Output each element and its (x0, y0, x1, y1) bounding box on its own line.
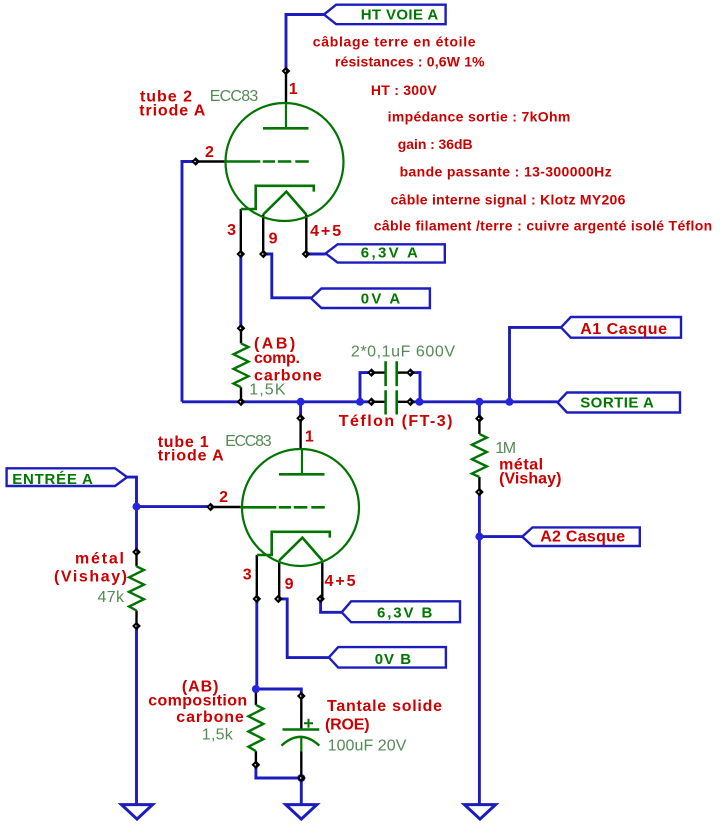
svg-text:1: 1 (289, 81, 298, 98)
svg-text:100uF 20V: 100uF 20V (328, 738, 407, 755)
svg-text:0V A: 0V A (361, 291, 401, 308)
svg-text:6,3V B: 6,3V B (377, 604, 432, 621)
svg-text:ECC83: ECC83 (225, 433, 272, 450)
svg-text:(Vishay): (Vishay) (499, 471, 561, 488)
svg-text:A2 Casque: A2 Casque (540, 529, 625, 546)
svg-text:comp.: comp. (254, 350, 300, 367)
svg-text:4+5: 4+5 (310, 223, 341, 240)
svg-text:(Vishay): (Vishay) (54, 569, 127, 586)
svg-text:résistances : 0,6W 1%: résistances : 0,6W 1% (335, 54, 485, 70)
svg-text:1: 1 (305, 428, 314, 445)
svg-text:HT VOIE A: HT VOIE A (361, 7, 439, 24)
svg-text:1,5K: 1,5K (249, 382, 286, 399)
svg-text:3: 3 (227, 222, 236, 239)
svg-text:impédance sortie : 7kOhm: impédance sortie : 7kOhm (388, 109, 571, 125)
svg-text:triode A: triode A (139, 103, 205, 120)
svg-text:1M: 1M (495, 440, 516, 457)
svg-text:4+5: 4+5 (325, 573, 356, 590)
svg-text:SORTIE A: SORTIE A (580, 395, 654, 412)
svg-text:carbone: carbone (176, 709, 244, 726)
svg-text:0V B: 0V B (375, 651, 412, 668)
svg-text:composition: composition (148, 693, 247, 710)
svg-text:triode A: triode A (158, 447, 224, 464)
svg-text:47k: 47k (98, 589, 126, 606)
svg-text:A1 Casque: A1 Casque (580, 321, 667, 338)
svg-text:2*0,1uF 600V: 2*0,1uF 600V (351, 344, 455, 361)
svg-text:9: 9 (269, 230, 278, 247)
svg-text:ECC83: ECC83 (210, 88, 259, 105)
svg-text:ENTRÉE A: ENTRÉE A (12, 471, 93, 488)
svg-text:9: 9 (285, 576, 294, 593)
svg-text:câble filament /terre : cuivre: câble filament /terre : cuivre argenté i… (374, 218, 712, 234)
svg-text:Tantale solide: Tantale solide (327, 698, 442, 715)
svg-text:1,5k: 1,5k (202, 727, 234, 744)
svg-text:2: 2 (219, 489, 228, 506)
svg-text:HT : 300V: HT : 300V (371, 82, 437, 98)
svg-text:(ROE): (ROE) (325, 717, 370, 734)
svg-text:2: 2 (205, 144, 214, 161)
svg-text:câble interne signal : Klotz M: câble interne signal : Klotz MY206 (391, 191, 626, 207)
svg-text:gain : 36dB: gain : 36dB (398, 136, 473, 152)
svg-text:bande passante : 13-300000Hz: bande passante : 13-300000Hz (400, 164, 612, 180)
svg-text:câblage terre en étoile: câblage terre en étoile (313, 34, 476, 50)
svg-text:métal: métal (75, 551, 124, 568)
svg-text:3: 3 (243, 567, 252, 584)
